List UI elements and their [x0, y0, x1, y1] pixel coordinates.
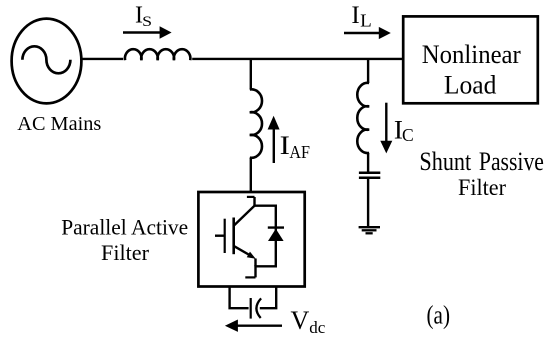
svg-text:Parallel Active: Parallel Active [61, 214, 188, 239]
svg-text:AF: AF [289, 142, 310, 162]
svg-text:(a): (a) [427, 300, 451, 330]
svg-text:Vdc: Vdc [291, 306, 326, 337]
svg-text:AC Mains: AC Mains [17, 113, 101, 135]
svg-text:Nonlinear: Nonlinear [422, 40, 521, 69]
svg-text:S: S [142, 14, 152, 30]
svg-text:Shunt: Shunt [419, 147, 471, 176]
svg-text:C: C [402, 125, 414, 145]
svg-text:Filter: Filter [101, 240, 150, 265]
svg-text:Load: Load [444, 70, 497, 99]
svg-text:I: I [351, 2, 359, 29]
svg-text:Passive: Passive [479, 147, 544, 176]
svg-text:Filter: Filter [458, 175, 506, 201]
svg-text:L: L [360, 10, 372, 30]
